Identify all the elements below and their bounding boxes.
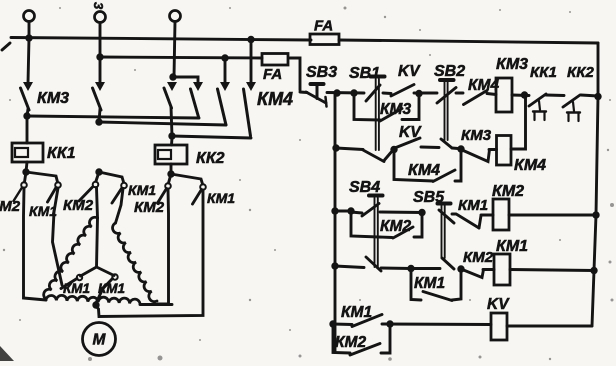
svg-text:КМ4: КМ4	[257, 89, 293, 109]
svg-text:КМ1: КМ1	[98, 281, 125, 296]
svg-text:КМ2: КМ2	[380, 218, 411, 235]
svg-text:КМ3: КМ3	[461, 127, 492, 144]
svg-text:SB2: SB2	[434, 63, 465, 80]
svg-text:КМ3: КМ3	[496, 56, 528, 73]
svg-text:3: 3	[91, 2, 106, 10]
svg-text:КМ1: КМ1	[414, 275, 445, 292]
svg-text:КМ4: КМ4	[514, 157, 546, 174]
svg-text:KV: KV	[487, 296, 510, 313]
svg-text:КМ3: КМ3	[37, 90, 69, 107]
svg-text:КК1: КК1	[47, 145, 76, 162]
svg-text:КМ1: КМ1	[458, 197, 488, 214]
svg-text:SB1: SB1	[349, 65, 380, 82]
svg-text:КК2: КК2	[196, 150, 225, 167]
svg-text:КМ2: КМ2	[63, 197, 94, 214]
svg-text:КМ2: КМ2	[463, 249, 494, 266]
svg-text:SB4: SB4	[349, 179, 380, 196]
svg-text:FA: FA	[314, 18, 333, 35]
svg-text:КМ2: КМ2	[335, 334, 366, 351]
svg-text:КМ1: КМ1	[128, 182, 156, 198]
svg-text:FA: FA	[263, 66, 282, 83]
svg-text:КМ1: КМ1	[496, 238, 528, 255]
svg-text:КМ2: КМ2	[492, 183, 524, 200]
svg-text:КМ1: КМ1	[29, 203, 57, 219]
svg-text:М: М	[93, 332, 107, 349]
svg-text:КМ2: КМ2	[0, 198, 21, 215]
svg-text:КК2: КК2	[567, 64, 594, 81]
svg-text:KV: KV	[398, 63, 421, 80]
svg-text:КМ1: КМ1	[63, 281, 90, 296]
svg-text:SB3: SB3	[306, 64, 337, 81]
svg-text:КК1: КК1	[530, 64, 557, 81]
svg-text:КМ4: КМ4	[408, 162, 440, 179]
svg-text:КМ1: КМ1	[207, 190, 235, 206]
svg-text:КМ1: КМ1	[341, 304, 372, 321]
svg-text:KV: KV	[399, 124, 422, 141]
svg-text:КМ3: КМ3	[380, 101, 411, 118]
svg-text:КМ2: КМ2	[134, 199, 165, 216]
